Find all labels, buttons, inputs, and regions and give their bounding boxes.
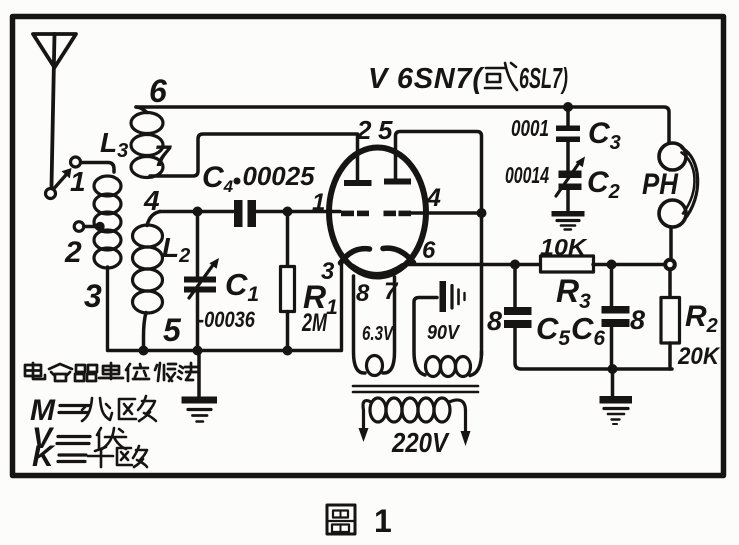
svg-text:2: 2 [64,236,82,269]
coil L3 tickler [131,107,163,178]
coil L2 [133,212,163,350]
junction pin6 wire / C5 [510,260,520,270]
junction top bus / C3 [563,102,573,112]
coil L1 antenna winding [94,176,121,268]
wire tube plate pin5 to B+ node [396,132,482,356]
junction bus / R1 [283,346,293,356]
junction bus / C1 [193,346,203,356]
svg-text:8: 8 [356,280,370,307]
switch S1 wiper [46,168,72,199]
capacitor C3 [556,111,580,171]
label 90V [427,322,460,344]
pin label 7 (heater) [384,278,399,305]
svg-text:2M: 2M [301,309,328,337]
tube grids (pins 1,4) dashed [341,211,411,217]
wire contact1 to coil L1 top [81,163,114,173]
svg-text:220V: 220V [391,427,450,458]
svg-text:4: 4 [143,185,160,216]
svg-text:4: 4 [426,184,441,212]
svg-text:1: 1 [312,189,325,216]
ground (bottom right) [600,369,633,424]
label L2 [162,232,190,267]
svg-text:6: 6 [422,237,436,264]
svg-text:7: 7 [154,140,172,173]
junction bus / L2 pin5 [139,346,149,356]
wire L2 pin4 to grid junction [160,210,233,214]
svg-text:1: 1 [374,503,392,539]
label 6.3V winding [362,323,394,345]
svg-text:6.3V: 6.3V [362,323,394,345]
wire cathode pin6 to R3 [408,263,540,267]
variable capacitor C2 [556,157,585,213]
label 220V [391,427,450,458]
caption: figure number 1 [374,503,392,539]
resistor R3 [541,256,664,272]
terminal node (open circle) [665,260,675,270]
pin label 3 (coil bottom) [84,278,102,314]
svg-text:00025: 00025 [243,161,316,191]
junction pin4/pin5/B+ [477,208,487,218]
resistor R1 [281,216,295,347]
svg-text:0001: 0001 [511,115,549,141]
pin label 8 (heater) [356,280,370,307]
svg-text:8: 8 [487,306,502,336]
note line2: M = megohm [30,394,89,427]
wire phones to output node [669,227,673,259]
pin label 2 (switch) [64,236,82,269]
label C2 value 00014 [505,162,620,203]
pin label 7 (L3 bottom) [154,140,172,173]
label R2 value 20K [677,300,720,370]
junction bottom bus / ground [608,364,618,374]
wire C4 to tube grid pin1 [256,210,340,214]
svg-text:K: K [32,440,56,473]
capacitor C4 [234,200,256,227]
svg-text:3: 3 [321,258,335,285]
wire L3 pin7 to tube plate pin2 [150,134,358,180]
wire pin4 to B+ junction [412,211,479,215]
antenna [33,34,76,186]
svg-text:V 6SN7(: V 6SN7( [368,63,485,95]
switch contact 1 [71,157,81,167]
switch contact 2 [74,222,105,232]
note line3: V = volt [32,422,90,455]
svg-text:8: 8 [630,305,645,335]
heater pins 8 7 leads / 6.3V winding [354,276,395,376]
svg-text:7: 7 [384,278,399,305]
capacitor C5 [504,269,672,369]
label C1 value .00036 [198,267,259,332]
label L3 [100,127,128,162]
pin label 1 (switch) [70,166,86,197]
wire top bus L3 pin6 to phones [136,107,669,143]
note line4: K = kilohm [32,440,86,473]
svg-text:10K: 10K [540,234,588,260]
pin label 4 (L2 top) [143,185,160,216]
svg-text:6: 6 [149,73,167,109]
pin label 5 (L2 bottom) [163,312,182,348]
junction grid node / C1 [193,207,203,217]
variable capacitor C1 [184,216,219,347]
rectifier / 90V tap symbol [414,281,465,375]
pin label 6 (cathode) [422,237,436,264]
svg-text:3: 3 [84,278,102,314]
pin label 4 (right grid) [426,184,441,212]
tube cathode arcs [341,248,414,274]
label PH [642,168,679,201]
headphones PH [659,143,698,227]
resistor R2 [661,270,680,369]
220V primary winding [359,398,471,446]
hanzi: or (huo) in title [485,63,517,90]
svg-text:00014: 00014 [505,162,549,188]
svg-text:-00036: -00036 [198,307,256,332]
junction grid wire / R1 [283,207,293,217]
caption: figure (tu) glyph [327,505,355,534]
svg-text:5: 5 [163,312,182,348]
title V 6SN7 (or 6SL7) [368,63,568,95]
tube plates (pins 2,5) [344,179,411,187]
svg-text:20K: 20K [677,343,720,370]
svg-text:1: 1 [70,166,86,197]
label C3 value 0001 [511,115,621,154]
ground bus wire bottom-left [108,263,342,351]
junction R3 wire / C6 [607,260,617,270]
label C5 value 8 [487,306,570,350]
svg-text:6SL7): 6SL7) [519,63,568,95]
svg-text:90V: 90V [427,322,460,344]
90V winding [426,352,482,377]
ground (left) [182,351,218,422]
svg-text:2: 2 [356,115,372,145]
capacitor C6 [602,269,630,369]
label R3 value 10K [540,234,591,313]
tube V 6SN7 envelope [329,148,426,277]
svg-text:PH: PH [642,168,679,201]
transformer core [353,386,478,392]
pin label 6 (L3 top) [149,73,167,109]
ground (below C2) [552,211,585,230]
note line1: capacitor unit microfarad [25,363,198,381]
pin label 1 (tube grid) [312,189,325,216]
label C4 value .00025 [202,161,315,196]
label C6 value 8 [571,305,645,350]
label R1 value 2M [301,258,338,337]
pin labels 2 5 (plates) [356,115,393,145]
svg-text:5: 5 [378,115,393,145]
